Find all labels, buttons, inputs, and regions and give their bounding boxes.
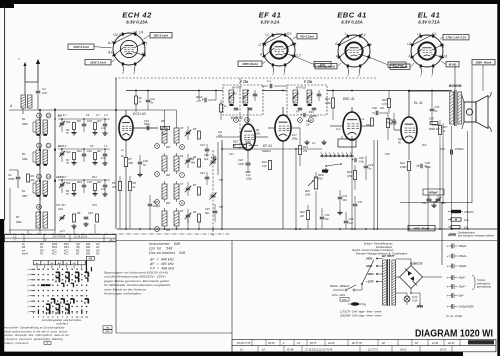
svg-text:+: +: [447, 244, 449, 248]
capacitor C35 700pF: [392, 120, 397, 122]
resistor R2 HT dropper: [135, 96, 138, 104]
svg-text:BV: BV: [16, 216, 20, 219]
svg-text:position dessinée des inter: position dessinée des interrupteurs dans…: [2, 333, 70, 337]
svg-text:24.25: 24.25: [327, 342, 335, 345]
svg-text:4k7: 4k7: [97, 119, 102, 123]
svg-text:6k8: 6k8: [166, 174, 171, 177]
svg-text:R16: R16: [318, 178, 323, 181]
svg-text:50Hz: 50Hz: [342, 299, 348, 301]
tube V5 EL 41 output: [401, 117, 417, 143]
svg-text:A: A: [335, 54, 338, 58]
svg-text:680Ω 2W: 680Ω 2W: [429, 128, 440, 131]
svg-text:KC2: KC2: [52, 254, 57, 256]
notes text instruments: [149, 242, 185, 255]
svg-text:C31: C31: [343, 195, 348, 198]
capacitor C32: [353, 203, 358, 205]
svg-text:2x50µF/350V: 2x50µF/350V: [458, 305, 475, 309]
svg-text:5pF: 5pF: [66, 181, 71, 185]
svg-text:Anderen pressions: Anderen pressions: [2, 341, 29, 345]
speaker: [462, 92, 491, 132]
svg-text:6.3V 0.2A: 6.3V 0.2A: [260, 20, 279, 25]
svg-text:25µF~: 25µF~: [458, 285, 467, 289]
capacitor C25 coupling between IF cans: [269, 84, 271, 89]
svg-text:+: +: [447, 285, 449, 289]
svg-text:G,L: G,L: [432, 32, 437, 36]
svg-text:0,5µ: 0,5µ: [359, 161, 364, 164]
svg-text:10n: 10n: [380, 106, 385, 110]
fuse rating text: [339, 311, 382, 318]
svg-text:KB: KB: [22, 247, 26, 249]
svg-text:50µF~: 50µF~: [459, 276, 467, 280]
svg-text:Cpl. tot 548: Cpl. tot 548: [149, 247, 172, 251]
wire EF41 grid return: [295, 149, 297, 229]
svg-text:Drahtwiderstand: Drahtwiderstand: [458, 232, 475, 235]
svg-text:25k: 25k: [255, 133, 261, 136]
resistor R18 470k: [353, 171, 356, 180]
svg-text:G2,G4: G2,G4: [114, 33, 124, 37]
svg-text:D: D: [181, 145, 183, 149]
svg-text:BV 9723: BV 9723: [296, 86, 307, 90]
capacitor C1 1nF antenna: [36, 90, 41, 92]
legend resistor small: [451, 226, 460, 229]
ground detector 1: [306, 140, 308, 142]
page border left thin line: [4, 4, 6, 220]
svg-text:I,C: I,C: [417, 33, 422, 37]
wire dashed FM-unit top boundary: [115, 77, 376, 79]
svg-text:4700pF: 4700pF: [455, 148, 464, 151]
svg-text:C34: C34: [349, 217, 354, 221]
condenser mounting note text: [352, 243, 407, 256]
svg-text:AM: AM: [105, 330, 109, 333]
svg-text:C46: C46: [204, 154, 209, 157]
svg-text:T: T: [181, 173, 183, 177]
svg-text:C23: C23: [200, 144, 205, 147]
svg-text:auf: auf: [22, 250, 26, 252]
svg-text:(6.4V): (6.4V): [449, 63, 457, 67]
svg-text:517 517: 517 517: [56, 204, 66, 207]
tube base diagram EF 41: [238, 11, 331, 77]
service table bottom strip: [232, 339, 496, 352]
svg-text:100k: 100k: [325, 101, 331, 105]
resistor R25 700k grid: [387, 99, 390, 108]
capacitor C33 AF: [320, 216, 325, 218]
svg-text:300: 300: [129, 161, 134, 165]
antenna FM dipole arrows: [18, 57, 40, 82]
wire left edge stub: [9, 169, 18, 171]
tuner band stage I: [33, 113, 110, 139]
svg-text:de boutons poussoirs gezeich: de boutons poussoirs gezeichnete Stellun…: [3, 337, 64, 341]
resistor R1 1M: [27, 174, 30, 182]
wire AVC double bus: [373, 140, 375, 229]
resistor R22 AF stage: [306, 211, 309, 220]
svg-text:R24: R24: [400, 161, 405, 165]
tube V3 EF 41 IF amp: [275, 115, 291, 141]
svg-text:Exemple • Montage intérieure d: Exemple • Montage intérieure du Condensa…: [356, 253, 407, 256]
svg-text:EF 41: EF 41: [259, 11, 282, 20]
svg-text:EL 41: EL 41: [418, 11, 441, 20]
svg-text:285V 46mA: 285V 46mA: [475, 61, 492, 65]
svg-text:1kω: 1kω: [464, 218, 469, 222]
svg-text:FM: FM: [40, 244, 43, 246]
svg-text:EF 41: EF 41: [263, 144, 272, 148]
oscillator coil pair C: [155, 181, 201, 205]
chassis symbol below lamp: [419, 303, 421, 306]
svg-text:28: 28: [381, 342, 385, 345]
svg-text:4,7: 4,7: [96, 114, 100, 117]
svg-text:13: 13: [37, 175, 41, 179]
potentiometer R20 volume 1M: [314, 177, 317, 189]
svg-text:A: A: [366, 55, 369, 59]
svg-text:0,1: 0,1: [312, 142, 316, 145]
svg-text:8µF~: 8µF~: [459, 294, 466, 298]
svg-text:A,T: A,T: [107, 41, 114, 45]
svg-text:KW2: KW2: [52, 247, 58, 249]
svg-text:230V 36mA: 230V 36mA: [392, 65, 408, 69]
svg-text:170V 1.4V=7.2V: 170V 1.4V=7.2V: [446, 36, 468, 40]
svg-text:FM: FM: [40, 250, 43, 252]
svg-text:K,1: K,1: [142, 52, 147, 56]
svg-text:70V 0.2mA: 70V 0.2mA: [300, 35, 314, 39]
capacitor C24 padder: [205, 176, 210, 178]
svg-text:R6: R6: [133, 181, 137, 185]
svg-text:F 72k: F 72k: [304, 80, 312, 84]
svg-text:+127V: +127V: [366, 280, 374, 284]
svg-text:I: I: [345, 32, 346, 36]
tube V2 ECH 42 converter: [241, 124, 255, 150]
capacitor C31: [338, 196, 343, 198]
ground trimmer 2450pF: [433, 203, 435, 205]
wire bridge connections: [396, 276, 400, 278]
svg-text:C16: C16: [58, 207, 63, 211]
svg-text:C38: C38: [440, 148, 445, 151]
wire dashed vertical gang line: [239, 78, 241, 150]
svg-text:4k7: 4k7: [97, 149, 102, 153]
IF transformer F 72k circled terminals: [298, 118, 303, 123]
svg-text:203V 2.7mA: 203V 2.7mA: [89, 61, 106, 65]
svg-text:A: A: [408, 54, 411, 58]
svg-text:HO: HO: [96, 254, 100, 256]
antenna input transformer: [21, 95, 26, 108]
mains switch and plug: [330, 284, 362, 301]
svg-text:R11: R11: [77, 149, 82, 153]
page border bottom black bar: [0, 352, 463, 356]
wire transformer top feed: [409, 90, 450, 92]
wire secondary to chassis: [396, 292, 407, 294]
svg-text:150: 150: [262, 164, 267, 168]
wire V1 plate lead: [125, 110, 127, 116]
svg-text:25.30: 25.30: [267, 342, 275, 345]
wire AVC line: [222, 148, 322, 150]
svg-text:500µF~: 500µF~: [459, 244, 468, 248]
tuner band stage III: [33, 174, 110, 200]
svg-text:A,H: A,H: [107, 51, 114, 55]
svg-text:A: A: [259, 53, 262, 57]
svg-text:C36: C36: [385, 153, 390, 156]
svg-text:G: G: [181, 201, 183, 205]
svg-text:G,L: G,L: [287, 32, 292, 36]
svg-text:KW1: KW1: [64, 247, 70, 249]
svg-text:FO: FO: [40, 247, 43, 249]
svg-text:5nF: 5nF: [422, 144, 427, 147]
tube base diagram EBC 41: [315, 11, 406, 78]
svg-text:C32: C32: [358, 201, 363, 204]
svg-text:150Ω: 150Ω: [400, 165, 406, 169]
svg-text:gestrichelte Schaltstellung i: gestrichelte Schaltstellung im Druckknop…: [3, 326, 66, 330]
svg-text:100kΩ: 100kΩ: [309, 114, 317, 118]
circled letter terminals oscillator: [180, 145, 185, 150]
legend electrolytic 8µF~: [447, 293, 466, 298]
svg-text:+: +: [447, 305, 449, 309]
legend bracket electrolytic note: [472, 275, 492, 290]
capacitor C19 50pF coupling: [146, 126, 148, 131]
svg-text:I,C: I,C: [407, 42, 412, 46]
svg-text:103V 8.7mA: 103V 8.7mA: [73, 45, 89, 49]
svg-text:R19: R19: [325, 97, 330, 101]
notes text IF frequencies: [149, 258, 175, 271]
resistor R12 screen: [220, 104, 223, 112]
dial cord table two-row strip: [5, 235, 117, 243]
legend electrolytic 25µF~: [447, 284, 467, 289]
tuner band stage IV: [36, 205, 99, 229]
tube base diagram EL 41: [390, 11, 469, 78]
svg-text:9448: 9448: [22, 123, 28, 126]
svg-text:C20: C20: [143, 159, 148, 163]
svg-text:Instrumente: 548: Instrumente: 548: [149, 242, 180, 246]
misc value labels middle band: [191, 92, 427, 209]
legend electrolytic 2x50µF/350V: [447, 304, 475, 309]
svg-text:R13: R13: [262, 160, 267, 164]
legend resistor high wattage: [451, 210, 461, 213]
resistor R27: [438, 126, 441, 135]
svg-text:BV 9722: BV 9722: [232, 86, 243, 90]
svg-text:+: +: [447, 264, 449, 268]
svg-text:A: A: [9, 104, 12, 108]
svg-text:11,5: 11,5: [60, 230, 65, 233]
switch push-button contact bank: [320, 153, 354, 167]
resistor R7 cathode 300: [124, 158, 127, 167]
capacitor C41 100uF screen: [303, 113, 305, 117]
svg-text:47p: 47p: [218, 135, 223, 138]
svg-text:42.43: 42.43: [448, 342, 455, 345]
output transformer BV96/56: [449, 84, 462, 126]
wire speaker return vertical: [467, 131, 469, 229]
resistor R13 cathode: [268, 161, 271, 170]
svg-text:14: 14: [47, 175, 51, 179]
capacitor C28 0.5uF: [354, 158, 356, 162]
svg-text:1MΩ: 1MΩ: [305, 194, 310, 197]
band switch header boxes: [33, 256, 94, 272]
legend electrolytic 250µF~: [447, 254, 468, 259]
oscillator coil pair B: [155, 153, 201, 177]
resistor R16 50k grid stopper: [234, 144, 247, 147]
svg-text:ECH 42: ECH 42: [133, 112, 146, 116]
svg-text:C18: C18: [88, 211, 93, 215]
svg-text:6,5 7,5 8 W: 6,5 7,5 8 W: [53, 236, 66, 239]
svg-text:Das du bobines 548: Das du bobines 548: [149, 251, 185, 255]
svg-text:C37: C37: [435, 105, 440, 109]
svg-text:9457: 9457: [22, 195, 28, 198]
IF transformer F 72k secondary coil: [307, 90, 312, 103]
svg-text:BV: BV: [22, 118, 26, 121]
svg-text:2+: 2+: [120, 148, 125, 152]
svg-text:B,y: B,y: [367, 43, 372, 47]
svg-text:1,1: 1,1: [104, 145, 108, 148]
svg-text:vu de bas ): vu de bas ): [56, 322, 68, 325]
svg-text:9462: 9462: [16, 221, 22, 224]
wire oscillator column verticals: [164, 110, 166, 125]
band switch contact matrix: [27, 267, 91, 314]
svg-text:FM: FM: [106, 327, 109, 329]
svg-text:25.26.77.78: 25.26.77.78: [236, 342, 251, 345]
wire EBC41 cathode drop: [351, 154, 353, 229]
svg-text:K, G3: K, G3: [439, 55, 447, 59]
capacitor C34 tone: [344, 220, 349, 222]
notes paragraph German: [103, 271, 171, 296]
wire V4 leads: [351, 107, 353, 112]
wire V2 leads: [247, 107, 249, 124]
resistor R16 50k tap: [322, 170, 328, 173]
svg-text:Trocken: Trocken: [477, 280, 486, 282]
svg-text:R15: R15: [303, 145, 308, 149]
svg-text:21.77.73: 21.77.73: [367, 348, 378, 351]
svg-text:BV: BV: [22, 190, 26, 193]
svg-text:42.46: 42.46: [287, 348, 294, 351]
svg-text:1nF: 1nF: [42, 91, 47, 95]
svg-text:ausef: ausef: [22, 254, 28, 256]
junction dots chassis rail: [125, 228, 127, 230]
wire AM antenna lead: [9, 109, 116, 111]
svg-text:BV96/56: BV96/56: [449, 84, 462, 88]
resistor R5 47k: [118, 182, 121, 191]
wire left vertical rail: [115, 78, 117, 229]
capacitor trimmer 2450pF: [423, 189, 444, 195]
ground V1 cathode: [139, 172, 141, 174]
svg-text:B250C75: B250C75: [410, 262, 423, 266]
page border top-left corner block: [0, 0, 14, 8]
svg-text:A,y: A,y: [360, 33, 366, 37]
capacitor C22 440pF: [148, 203, 153, 205]
svg-text:+: +: [211, 156, 213, 160]
svg-text:wire resistance résistance bo: wire resistance résistance bobinée: [458, 235, 495, 238]
ratio detector secondary box: [338, 139, 356, 147]
svg-text:R13: R13: [77, 180, 82, 184]
svg-text:6k8: 6k8: [166, 146, 171, 149]
page border top bar: [0, 0, 500, 4]
svg-text:6,3V: 6,3V: [412, 295, 418, 299]
svg-text:115V (p.4mA): 115V (p.4mA): [317, 65, 335, 69]
svg-text:47k: 47k: [112, 185, 117, 189]
svg-text:R21: R21: [366, 124, 371, 127]
svg-text:R7: R7: [129, 157, 133, 161]
resistor R23 0.7M: [386, 119, 389, 128]
ground detector 2: [323, 140, 325, 142]
svg-text:EBC 41: EBC 41: [343, 97, 355, 101]
svg-text:24,3: 24,3: [108, 239, 114, 242]
capacitor C46 electrolytic column: [213, 156, 215, 160]
svg-text:C30: C30: [372, 106, 377, 110]
svg-text:gummipolung: gummipolung: [477, 287, 492, 289]
svg-text:10: 10: [47, 114, 51, 118]
IF transformer F 72k secondary coil: [243, 90, 248, 103]
svg-text:BV: BV: [22, 153, 26, 156]
wire V5 leads: [408, 91, 410, 117]
svg-text:6,3 6,3: 6,3 6,3: [58, 145, 67, 148]
svg-text:26.77.78: 26.77.78: [351, 342, 362, 345]
svg-text:F 72k: F 72k: [240, 80, 248, 84]
tube V4 EBC 41 detector: [343, 112, 361, 140]
junction dots HT rail: [135, 90, 137, 92]
svg-text:15: 15: [37, 205, 41, 209]
svg-text:C13: C13: [229, 153, 234, 156]
voltage selector taps: [361, 257, 383, 285]
svg-text:6.3V 0.23A: 6.3V 0.23A: [341, 20, 363, 25]
legend wire resistance note: [448, 232, 495, 238]
oscillator coil pair D: [155, 208, 201, 232]
svg-text:1nF: 1nF: [101, 126, 106, 130]
svg-text:9449: 9449: [22, 158, 28, 161]
fuse: [348, 302, 365, 306]
svg-text:11: 11: [38, 144, 41, 148]
capacitor C30 coupling to EL41: [375, 111, 377, 116]
wire vertical x443: [442, 123, 444, 203]
IF transformer F 72k tuning caps: [253, 93, 258, 95]
svg-text:470kΩ½: 470kΩ½: [464, 210, 475, 214]
svg-text:R9: R9: [77, 119, 81, 123]
svg-text:1W: 1W: [464, 226, 468, 230]
svg-text:Cj ca. 0,5µF: Cj ca. 0,5µF: [446, 314, 462, 318]
svg-text:10n: 10n: [325, 217, 330, 221]
capacitor C37 5nF tone plate: [430, 108, 435, 110]
svg-text:C39: C39: [429, 118, 434, 121]
wire drops into band table: [39, 230, 41, 235]
svg-text:45.77: 45.77: [310, 342, 317, 345]
svg-text:4700: 4700: [8, 177, 15, 181]
svg-text:C,w: C,w: [336, 128, 341, 131]
svg-text:C26: C26: [238, 158, 243, 162]
svg-text:R5: R5: [112, 181, 116, 185]
svg-text:50kΩ/A: 50kΩ/A: [262, 149, 271, 153]
box label 260V 50mA: [408, 226, 435, 231]
svg-text:6,7 6,7: 6,7 6,7: [58, 114, 67, 117]
svg-text:50V 8.1mA: 50V 8.1mA: [154, 34, 168, 38]
svg-text:C33: C33: [325, 213, 330, 217]
svg-text:47pF: 47pF: [238, 162, 244, 166]
svg-text:100µF~: 100µF~: [459, 264, 468, 268]
svg-text:250µF~: 250µF~: [458, 254, 468, 258]
svg-text:(W): (W): [76, 247, 80, 249]
capacitor C29 tone: [364, 165, 369, 167]
svg-text:5pF: 5pF: [66, 150, 71, 154]
notes panel divider lines: [115, 242, 117, 333]
svg-text:1M: 1M: [31, 178, 36, 182]
svg-text:1,3: 1,3: [104, 114, 108, 117]
capacitor C38 4700pF secondary: [450, 150, 452, 155]
wire feedback: [432, 124, 440, 126]
svg-text:100p: 100p: [246, 178, 252, 181]
capacitor C26 47pF grid: [246, 162, 251, 164]
svg-text:C45: C45: [205, 208, 210, 211]
note text below matrix: [42, 319, 82, 325]
svg-text:1nF: 1nF: [101, 156, 106, 160]
legend electrolytic 50µF~: [447, 275, 467, 280]
svg-text:C,s: C,s: [267, 79, 272, 83]
svg-text:R16: R16: [233, 140, 238, 144]
resistor R21: [371, 118, 374, 126]
svg-text:517: 517: [219, 179, 224, 182]
svg-text:ΔF = 448 kHz: ΔF = 448 kHz: [149, 258, 174, 262]
variable capacitor tuning gang section 1: [211, 160, 216, 162]
svg-text:ECH 42: ECH 42: [122, 11, 152, 20]
